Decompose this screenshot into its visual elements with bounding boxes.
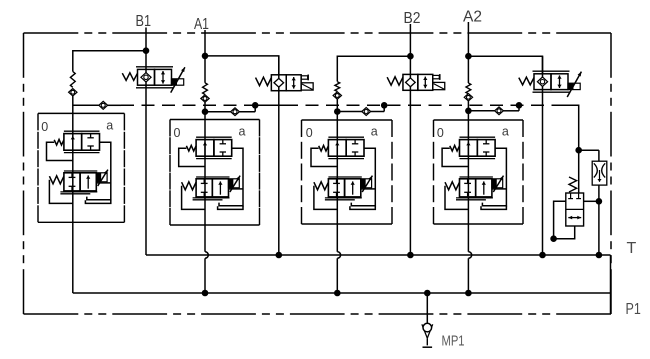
node LS section2 [252,102,259,109]
LS shuttle check section1 [73,104,99,106]
T bus [146,254,611,256]
section 1 dashed block [38,112,124,114]
check valve section2 [201,95,209,102]
valve U2 pilot actuator [301,83,313,90]
throttle 3 blocked ports [336,179,338,184]
node A1 branch junction [202,53,209,60]
section 3 dashed block [302,119,393,121]
compensator 4 flow arrow [467,142,469,156]
wire branch A1 to valve U2 [205,56,279,75]
compensator 4 spring pilot [442,148,468,166]
node A2 branch junction [465,53,472,60]
wire branch B2 to compensator 3 [337,56,410,81]
svg-text:A2: A2 [463,8,482,25]
svg-text:a: a [502,125,509,139]
throttle 2 blocked ports [203,179,205,184]
wire A1 port drop [204,30,206,83]
wire valve U2 drop [278,56,280,255]
wire section2 through block [204,120,206,252]
svg-text:T: T [627,240,637,257]
check valve section1 [69,89,77,96]
throttle 4 spring pilot [445,186,468,210]
wire MP1 drop [426,293,428,323]
compensator 3 spring [319,145,329,151]
throttle 1 blocked ports [71,173,73,178]
svg-text:P1: P1 [626,301,641,318]
wire enclosure edge T to P [610,255,612,314]
throttle 2 spring [182,182,197,190]
node B1 branch junction [143,47,150,54]
measuring port MP1 [422,324,427,338]
relief valve RV1 pilot loop [554,201,575,238]
node P section4 [465,290,472,297]
relief valve RV1 flow arrow [568,217,581,219]
wire section3 hop over T [337,252,340,259]
throttle 2 solenoid [229,179,240,188]
node T B2 [407,252,414,259]
compensator 2 pressure pilot [219,148,243,206]
node T drain [596,252,603,259]
valve U3 pilot plunger [433,75,440,78]
svg-text:0: 0 [437,126,444,140]
node section3 junction [336,99,338,120]
throttle 2 pressure pilot [229,188,244,190]
node P section2 [202,290,209,297]
LS shuttle check section4 [468,110,495,112]
node T valve U4 [539,252,546,259]
compensator 4 body [460,136,496,138]
throttle 3 spring [314,182,329,190]
wire section1 through block [72,113,74,293]
section 2 dashed block [170,119,260,121]
wire section4 through block [467,120,469,252]
throttle 4 spring [445,182,460,190]
wire section2 hop over T [205,252,208,259]
compensator 1 blocked ports [90,134,92,138]
LS shuttle check section2 [205,111,231,113]
wire branch A2 to valve U4 [468,56,542,74]
valve U2 body [271,75,286,91]
throttle 1 pressure pilot [96,182,111,184]
throttle 2 flow arrow [219,181,221,194]
throttle 3 solenoid [361,179,372,188]
valve U1 flow arrow [162,71,164,84]
throttle 1 flow arrow [87,175,89,188]
valve U4 check symbol [537,77,547,86]
valve U3 check symbol [406,78,416,87]
section 4 dashed block [434,119,524,121]
compensator 4 blocked ports [485,140,487,144]
compensator 1 flow arrow [72,136,74,150]
compensator 2 spring [186,145,196,151]
wire LS to relief valve [563,105,579,193]
throttle 3 pressure pilot [361,188,376,190]
svg-text:B2: B2 [404,10,421,27]
wire orifice to T bus [598,185,600,255]
wire B1 port drop [145,28,147,256]
valve U1 spring [122,73,137,81]
wire branch B1 to compensator 1 [73,51,146,72]
throttle 2 spring pilot [182,186,205,210]
compensator 1 spring [54,139,64,145]
compensator 3 pressure pilot [351,148,375,206]
node LS section3 [381,102,388,109]
compensator 3 spring pilot [311,148,337,166]
throttle 4 pressure pilot [492,188,507,190]
P1 bus [73,292,611,294]
valve U1 body [136,66,173,68]
svg-text:a: a [371,125,378,139]
valve U3 flow arrow [424,77,426,89]
compensator 1 body [64,130,100,132]
wire relief drain [584,200,599,202]
valve U2 spring [256,77,272,85]
valve U3 pilot actuator [433,82,445,89]
compensator 4 pressure pilot [482,148,506,206]
valve U4 proportional solenoid [568,83,580,89]
svg-text:0: 0 [174,126,181,140]
spring section3 [335,82,340,92]
compensator 3 blocked ports [354,140,356,144]
node B2 branch junction [407,53,414,60]
throttle 3 spring pilot [314,186,337,210]
node P MP1 [424,290,431,297]
check valve section4 [464,94,472,101]
throttle 4 solenoid [492,179,503,188]
compensator 3 body [328,136,364,138]
valve U4 body [533,70,570,72]
enclosure dashed border [24,32,79,34]
valve U2 pilot plunger [301,76,308,79]
relief valve RV1 blocked ports [570,193,572,199]
valve U2 flow arrow [293,77,295,89]
valve U2 check symbol [274,78,284,87]
node section4 junction [467,101,469,120]
svg-text:0: 0 [41,120,48,134]
spring section2 [203,83,208,95]
svg-text:MP1: MP1 [442,333,465,349]
node T valve U2 [276,252,283,259]
throttle 1 spring pilot [49,180,72,204]
compensator 3 flow arrow [336,142,338,156]
throttle 4 body [460,176,493,178]
svg-text:a: a [106,119,113,133]
wire valve U4 drop [542,56,544,255]
node relief pilot corner [550,235,557,242]
valve U4 spring [519,77,534,85]
valve U4 flow arrow [559,75,561,88]
wire section1 check to LS junction [72,96,74,114]
node P section3 [334,290,341,297]
node LS relief junction [575,147,582,154]
node drain junction [596,198,603,205]
spring section4 [466,83,471,94]
svg-text:a: a [239,125,246,139]
check valve section3 [333,92,341,99]
relief valve RV1 body [566,193,584,226]
throttle 4 flow arrow [483,181,485,194]
compensator 2 body [196,136,232,138]
valve U1 check symbol [141,73,151,82]
wire section3 through block [336,120,338,252]
compensator 1 pressure pilot [87,142,111,200]
throttle 2 body [196,176,229,178]
throttle 1 solenoid [96,173,107,182]
orifice F1 [579,149,599,151]
compensator 1 spring pilot [47,142,73,160]
compensator 2 blocked ports [222,140,224,144]
throttle 3 flow arrow [352,181,354,194]
node LS section4 [516,102,523,109]
compensator 4 spring [450,145,460,151]
wire section4 hop over T [468,252,471,259]
wire A2 port drop [467,22,469,83]
LS shuttle check section3 [337,111,362,113]
wire B2 port drop [409,24,411,255]
svg-text:0: 0 [306,126,313,140]
LS pilot line dashed [121,104,579,106]
throttle 1 spring [49,176,64,184]
spring section1 [70,72,75,88]
svg-text:A1: A1 [194,16,209,33]
compensator 2 spring pilot [179,148,205,166]
valve U1 proportional solenoid [172,79,184,85]
svg-text:B1: B1 [136,13,152,30]
node section2 junction [204,102,206,120]
throttle 1 body [64,170,97,172]
relief valve RV1 spring [569,177,577,192]
throttle 4 blocked ports [467,179,469,184]
throttle 3 body [328,176,361,178]
compensator 2 flow arrow [204,142,206,156]
valve U3 body [403,74,418,90]
valve U3 spring [387,77,403,85]
